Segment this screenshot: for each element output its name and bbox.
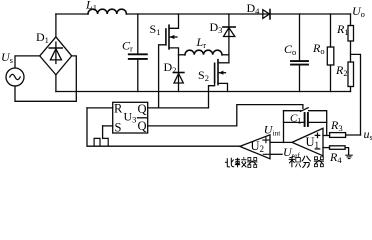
svg-text:R4: R4 — [329, 150, 342, 165]
svg-text:Cr: Cr — [122, 39, 133, 54]
svg-text:Ro: Ro — [312, 41, 325, 56]
svg-text:S: S — [115, 121, 122, 135]
svg-text:R2: R2 — [335, 63, 348, 78]
svg-text:R: R — [114, 102, 123, 116]
svg-text:us: us — [364, 127, 372, 142]
svg-text:Lr: Lr — [196, 35, 207, 50]
svg-text:U2: U2 — [251, 139, 265, 154]
svg-text:Uint: Uint — [264, 123, 282, 138]
svg-text:S1: S1 — [150, 22, 161, 37]
svg-text:Uo: Uo — [352, 4, 365, 19]
svg-text:C1: C1 — [290, 113, 301, 126]
svg-text:Co: Co — [284, 42, 296, 57]
svg-text:S2: S2 — [198, 68, 209, 83]
svg-text:D4: D4 — [247, 1, 261, 16]
svg-text:R3: R3 — [330, 118, 343, 133]
svg-text:D1: D1 — [36, 30, 49, 45]
svg-text:R1: R1 — [336, 22, 349, 37]
svg-text:D3: D3 — [210, 20, 223, 35]
svg-text:U3: U3 — [124, 110, 137, 125]
svg-text:Us: Us — [1, 50, 13, 65]
svg-text:D2: D2 — [164, 60, 177, 75]
svg-text:L1: L1 — [85, 0, 97, 13]
svg-text:Q: Q — [138, 119, 147, 133]
svg-text:Q: Q — [138, 102, 147, 116]
